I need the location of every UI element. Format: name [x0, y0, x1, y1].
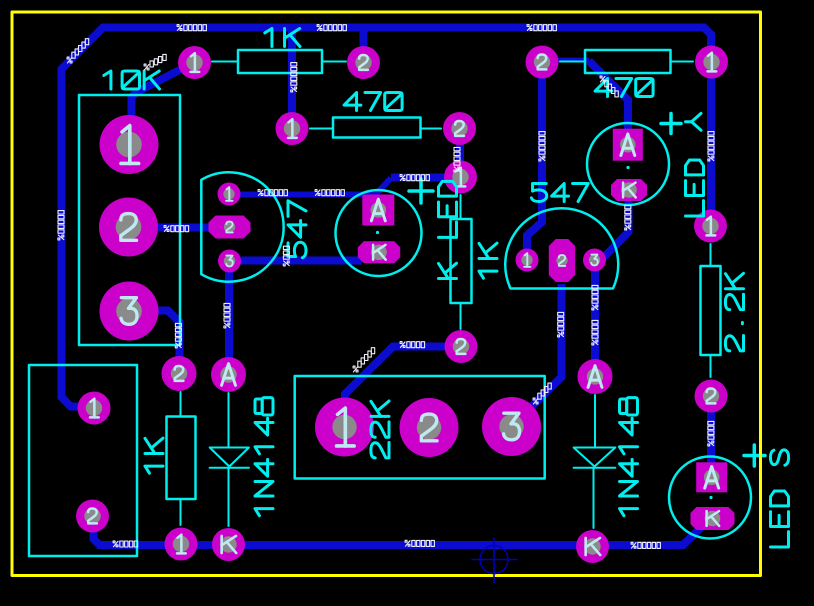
wire R1.1 pad1 to VR1.1 wiper [132, 63, 195, 145]
resistor R2 body [310, 118, 441, 138]
wire R4.2 down to LED3.A [707, 396, 715, 468]
label D3 value 1N4148 [620, 398, 638, 516]
wire R3.2 down to Q2.1 [527, 62, 542, 253]
pad Q2.2 [549, 239, 575, 282]
polarity mark + for LED1 [409, 179, 433, 203]
label R6 value 1K [145, 438, 163, 473]
wire VR1.3 to R6.2 [129, 311, 180, 374]
resistor R1 body [212, 50, 346, 73]
label R5 value 1K [479, 243, 497, 278]
label D1 value 1N4148 [255, 398, 273, 516]
wire Q2.3 down to D3.A [591, 260, 599, 377]
label VR2 value 22K [371, 401, 389, 458]
pad R4.1 [694, 210, 727, 243]
pad D1.A [211, 357, 246, 392]
potentiometer VR1 outline [79, 95, 180, 345]
pad VR2.2 [400, 398, 459, 457]
label LED2 name LED Y with polarity + [661, 113, 704, 216]
net label on Q1.1-R5.1 wire [400, 175, 429, 181]
wire VR1.2 to Q1.2 base [129, 224, 229, 232]
pad R5.2 [445, 330, 478, 363]
label R1 value 1K [265, 29, 300, 47]
pad Q2.1 [516, 249, 539, 272]
LED1 outline circle [336, 190, 422, 276]
pad R1.1 [178, 46, 211, 79]
label Q2 value 547 [531, 184, 588, 202]
connector J1 outline [29, 365, 137, 556]
pad Q1.1 [218, 183, 241, 206]
resistor R5 body [451, 195, 472, 329]
pad VR1.2 [99, 198, 158, 257]
diode D1 symbol [210, 393, 249, 526]
label R2 value 470 [344, 93, 402, 111]
net label on R5.2-VR2.1 diagonal [353, 348, 375, 372]
pad LED2.A [613, 129, 643, 161]
net label on Q2.3-D3.A wire a [592, 285, 598, 310]
pad VR1.1 [100, 115, 159, 174]
pad R3.2 [526, 46, 559, 79]
wire Q2.2 down to R7.3 [513, 284, 562, 425]
net label on right rail upper [708, 132, 714, 161]
net label on top rail mid [317, 25, 346, 31]
wire bottom rail J1.2 to D1.K / D3.K / LED3.K [94, 516, 704, 545]
wire R1.2 pad2 up to top rail [360, 31, 368, 63]
origin crosshair marker [472, 538, 517, 583]
label R3 value 470 [595, 79, 653, 97]
resistor R3 body [560, 50, 693, 73]
pad Q2.3 [583, 249, 606, 272]
pad LED3.A [696, 462, 727, 492]
pad VR2.1 [315, 398, 374, 457]
net label on top rail left [177, 25, 206, 31]
net label on R2.1 vertical [291, 63, 297, 92]
wire R3.2 to LED2.A [542, 60, 628, 146]
pad R5.1 [444, 161, 477, 194]
LED3 outline circle [669, 457, 751, 539]
wire R2.2 down to R5.1 [456, 129, 464, 178]
wire R5.2 to R7.1 [345, 347, 462, 411]
net label on Q1.1 wire b [315, 190, 344, 196]
net label on R4.2-LED3.A wire [708, 421, 714, 446]
net label on left rail [58, 211, 64, 240]
pad R3.1 [695, 46, 728, 79]
net label on top-left diagonal [67, 39, 89, 63]
pad Q1.2 [209, 216, 251, 239]
LED2 outline circle [587, 123, 669, 205]
transistor Q1 outline [201, 172, 283, 281]
pad LED1.K [358, 241, 400, 263]
wire LED2.K to Q2.3 [596, 196, 629, 259]
pad LED1.A [362, 195, 394, 226]
diode D3 symbol [574, 395, 616, 528]
net label on top rail right [527, 25, 556, 31]
label Q1 value 547 [288, 201, 306, 258]
wire Q1.3 to LED1.K [230, 257, 362, 265]
net label on bottom rail left [113, 541, 138, 547]
net label on bottom rail mid [405, 540, 434, 546]
pad D1.K [212, 528, 245, 561]
net label on R1.1-VR1.1 diagonal [144, 54, 166, 70]
pad R6.2 [162, 356, 197, 391]
pad LED2.K [611, 179, 647, 201]
net label on R3.2 vertical [539, 132, 545, 161]
wire Q1.1 to R5.1 via LED1.A edge [229, 178, 461, 195]
net label on Q2.3-D3.A wire b [592, 320, 598, 345]
net label on Q2.2 vertical [558, 312, 564, 337]
label LED3 name LED S with polarity + [744, 445, 789, 547]
pad D3.K [576, 530, 609, 563]
pad VR1.3 [100, 282, 159, 341]
net label on VR1.2-Q1.2 wire [164, 226, 189, 232]
net label on R3.2-LED2.A diagonal [600, 76, 618, 97]
label VR1 value 10K [104, 71, 160, 89]
net label on bottom rail right [631, 542, 660, 548]
pad R2.1 [276, 112, 309, 145]
pad J1.2 [76, 500, 109, 533]
pad LED3.K [691, 507, 735, 530]
net label on Q1.3-LED1.K wire [283, 246, 289, 266]
pad J1.1 [78, 392, 111, 425]
net label on Q1.1 wire a [258, 190, 287, 196]
net label on LED2.K-Q2.3 wire [625, 205, 631, 230]
pad R1.2 [347, 46, 380, 79]
net label on Q1.3-D1.A wire [224, 303, 230, 328]
transistor Q2 outline [505, 208, 618, 288]
wire R2.1 pad1 up to top rail [288, 31, 296, 129]
pad R6.1 [165, 528, 198, 561]
label R5 name K LED [439, 181, 457, 278]
label R4 value 2.2K [725, 273, 743, 350]
pad VR2.3 [482, 397, 541, 456]
net label on Q2.2-VR2.3 diagonal [533, 383, 551, 404]
pad Q1.3 [218, 250, 241, 273]
resistor R6 body [167, 392, 196, 525]
pad R4.2 [695, 380, 728, 413]
pad D3.A [578, 359, 613, 394]
wire Q1.3 down to D1.A [225, 261, 233, 375]
net label on R2.2-R5.1 wire [454, 147, 460, 172]
pad R2.2 [443, 112, 476, 145]
net label on VR1.3-R6.2 wire [175, 323, 181, 348]
resistor R4 body [701, 244, 721, 377]
net label on R5.2 wire [400, 342, 425, 348]
potentiometer VR2 outline [295, 376, 545, 479]
wire main rail: J1.1 left rail, top rail, right rail to R4.1 [62, 28, 712, 407]
